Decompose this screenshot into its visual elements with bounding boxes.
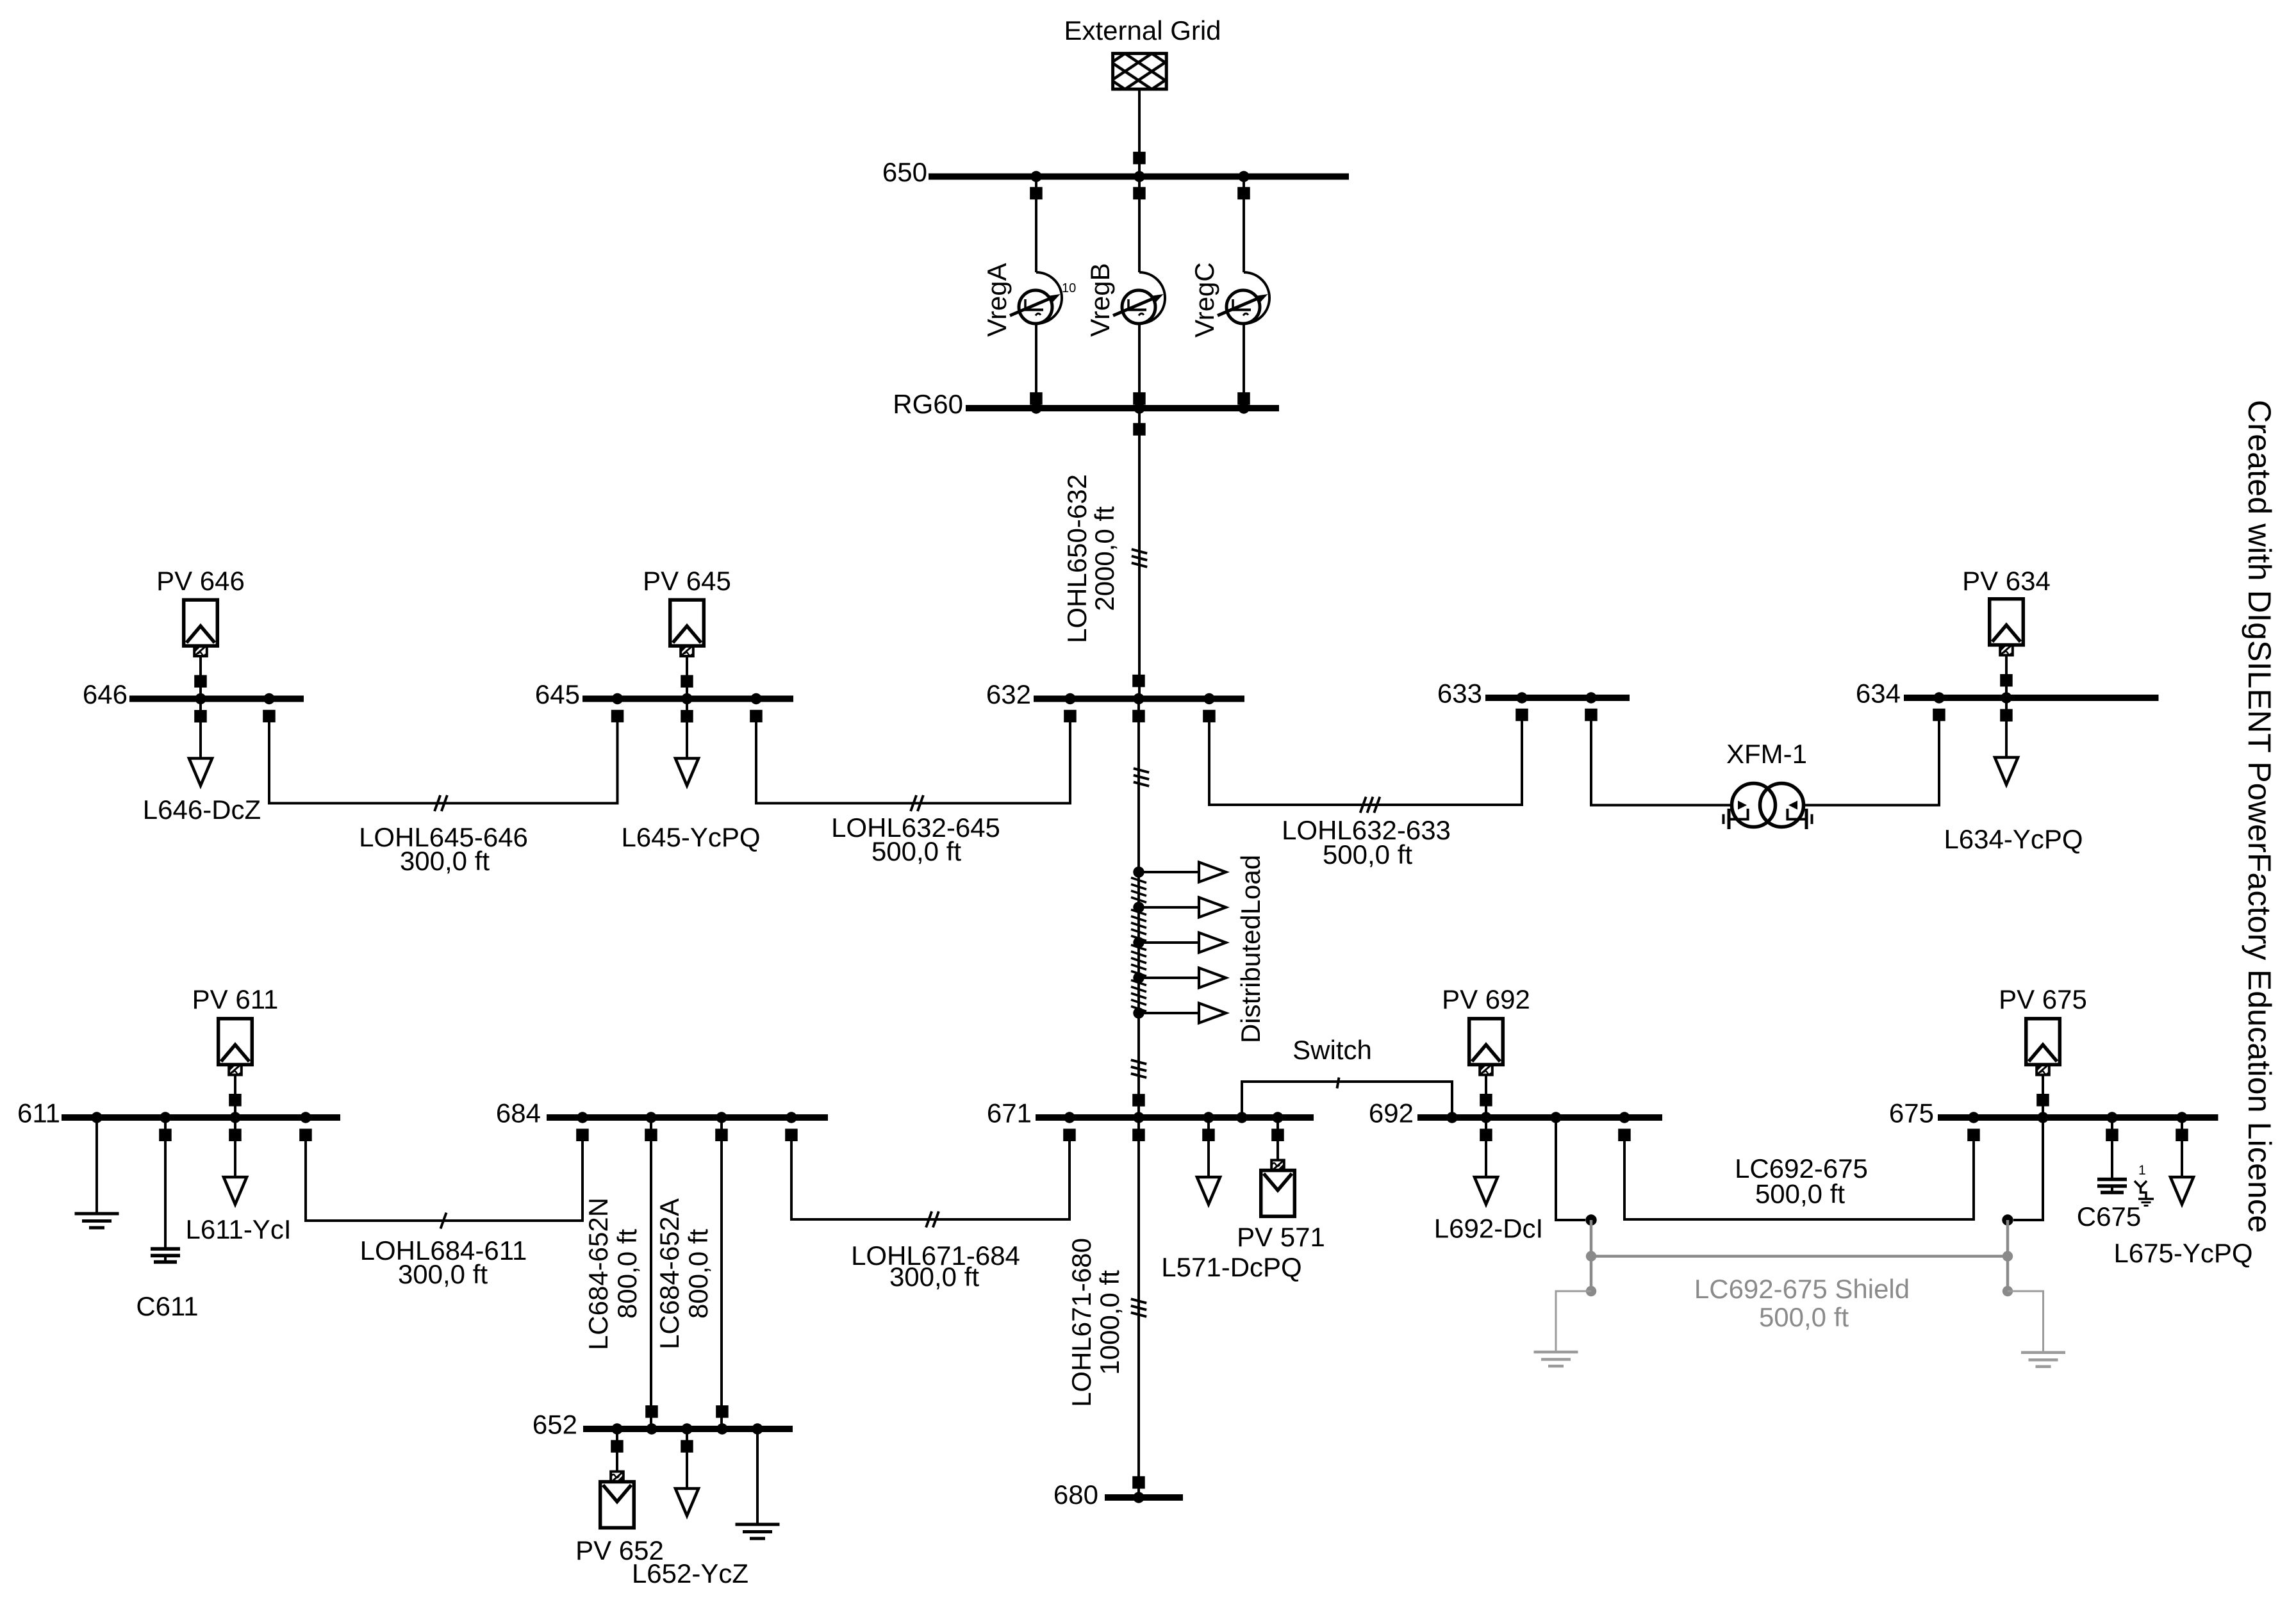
svg-text:634: 634 <box>1856 679 1901 709</box>
svg-text:L611-YcI: L611-YcI <box>186 1214 292 1244</box>
ground at bus 652 <box>736 1429 780 1538</box>
bus 692 <box>1417 1114 1662 1121</box>
wire external grid to bus 650 <box>1138 89 1141 176</box>
svg-text:L652-YcZ: L652-YcZ <box>632 1558 748 1588</box>
PV generator PV 675 <box>2026 1019 2060 1118</box>
svg-text:2000,0 ft: 2000,0 ft <box>1089 506 1119 611</box>
svg-text:L692-DcI: L692-DcI <box>1434 1214 1543 1244</box>
load L675-YcPQ <box>2170 1118 2193 1205</box>
PV generator PV 646 <box>184 600 218 698</box>
node bus650-VregC <box>1238 171 1249 182</box>
line LOHL671-684 <box>785 1129 1076 1228</box>
svg-text:652: 652 <box>533 1410 577 1440</box>
svg-text:675: 675 <box>1889 1098 1934 1128</box>
switch square external grid feeder <box>1133 152 1146 164</box>
bus 646 <box>129 696 304 702</box>
line LOHL632-633 <box>1203 709 1528 813</box>
svg-text:VregA: VregA <box>982 263 1012 336</box>
switch wire bus671-bus692 <box>1242 1078 1452 1118</box>
load L611-YcI <box>224 1118 247 1205</box>
shield ground right <box>2008 1291 2065 1367</box>
svg-text:500,0 ft: 500,0 ft <box>871 836 961 866</box>
PV generator PV 692 <box>1469 1019 1503 1118</box>
svg-text:LC692-675 Shield: LC692-675 Shield <box>1694 1274 1910 1304</box>
PV generator PV 652 <box>600 1429 634 1528</box>
bus 671 <box>1036 1114 1314 1121</box>
shunt capacitor C675 <box>2097 1118 2127 1192</box>
bus 633 <box>1485 695 1630 701</box>
svg-text:PV 692: PV 692 <box>1442 984 1530 1014</box>
svg-text:300,0 ft: 300,0 ft <box>398 1259 488 1289</box>
svg-text:645: 645 <box>535 679 580 709</box>
svg-text:C611: C611 <box>136 1291 198 1321</box>
svg-text:External Grid: External Grid <box>1064 15 1221 45</box>
svg-text:Created with DIgSILENT PowerFa: Created with DIgSILENT PowerFactory Educ… <box>2242 400 2277 1233</box>
PV generator PV 634 <box>1990 599 2024 698</box>
bus RG60 <box>966 405 1279 411</box>
node LC692-675 terminal i <box>1585 1214 1596 1225</box>
svg-text:PV 646: PV 646 <box>156 566 245 596</box>
cable LC692-675 <box>1618 1129 1980 1220</box>
bus 675 <box>1938 1114 2218 1121</box>
load L652-YcZ <box>675 1429 698 1516</box>
svg-text:LOHL650-632: LOHL650-632 <box>1062 474 1092 643</box>
wire <box>1138 177 1141 273</box>
svg-text:RG60: RG60 <box>893 389 963 419</box>
switch square feeder at bus 632 top <box>1132 675 1145 688</box>
svg-text:LC684-652N: LC684-652N <box>583 1198 613 1350</box>
load L634-YcPQ <box>1995 698 2018 785</box>
svg-text:692: 692 <box>1369 1098 1414 1128</box>
svg-text:L645-YcPQ: L645-YcPQ <box>621 822 760 852</box>
bus 632 <box>1034 696 1244 702</box>
svg-text:500,0 ft: 500,0 ft <box>1759 1302 1849 1332</box>
bus 684 <box>547 1114 828 1121</box>
PV generator PV 645 <box>670 600 704 698</box>
svg-text:684: 684 <box>496 1098 541 1128</box>
svg-text:PV 634: PV 634 <box>1962 566 2051 596</box>
svg-text:633: 633 <box>1437 679 1482 709</box>
cable shield LC692-675 Shield <box>1586 1220 2013 1296</box>
wire <box>1138 324 1141 408</box>
svg-text:300,0 ft: 300,0 ft <box>889 1262 979 1292</box>
neutral earthing symbol 1 at C675 <box>2135 1163 2154 1206</box>
line LOHL684-611 <box>299 1129 589 1229</box>
voltage regulator VregC <box>1218 177 1269 409</box>
svg-text:VregB: VregB <box>1085 263 1115 336</box>
svg-text:680: 680 <box>1053 1480 1098 1510</box>
external grid symbol <box>1113 53 1167 89</box>
svg-text:800,0 ft: 800,0 ft <box>612 1229 642 1319</box>
svg-text:500,0 ft: 500,0 ft <box>1755 1179 1845 1209</box>
svg-text:1000,0 ft: 1000,0 ft <box>1094 1270 1125 1375</box>
shunt capacitor C611 <box>151 1118 180 1262</box>
svg-text:C675: C675 <box>2077 1201 2141 1232</box>
line LOHL632-645 <box>750 710 1077 811</box>
DistributedLoad arrows <box>1131 862 1226 1023</box>
load L645-YcPQ <box>675 699 698 786</box>
svg-text:L675-YcPQ: L675-YcPQ <box>2113 1238 2252 1268</box>
svg-text:646: 646 <box>83 679 128 709</box>
svg-text:300,0 ft: 300,0 ft <box>400 846 490 876</box>
svg-text:XFM-1: XFM-1 <box>1726 739 1807 769</box>
load L571 load arrow <box>1197 1118 1220 1205</box>
PV generator PV 611 <box>219 1019 252 1118</box>
wire <box>1035 177 1037 273</box>
bus 645 <box>582 696 793 702</box>
voltage regulator VregB <box>1113 177 1165 409</box>
wire <box>1243 177 1245 273</box>
ground at bus 611 <box>75 1118 119 1228</box>
line LOHL650-632 <box>1132 408 1147 699</box>
svg-text:L634-YcPQ: L634-YcPQ <box>1944 824 2083 854</box>
wire XFM-1 to bus 634 <box>1804 709 1945 805</box>
svg-text:PV 611: PV 611 <box>192 984 279 1014</box>
svg-text:800,0 ft: 800,0 ft <box>683 1229 713 1319</box>
load L646-DcZ <box>189 699 212 786</box>
load L692-DcI <box>1474 1118 1498 1205</box>
cable end stub bus692 <box>1556 1118 1585 1220</box>
svg-text:LOHL671-680: LOHL671-680 <box>1066 1238 1096 1407</box>
svg-text:PV 675: PV 675 <box>1999 984 2087 1014</box>
svg-text:LC684-652A: LC684-652A <box>654 1198 684 1349</box>
node bus650-center <box>1134 171 1144 182</box>
shield ground left <box>1534 1291 1592 1366</box>
cable end stub bus675 <box>2013 1118 2043 1220</box>
bus 652 <box>583 1426 793 1432</box>
svg-text:632: 632 <box>986 679 1031 709</box>
svg-text:PV 571: PV 571 <box>1237 1222 1325 1252</box>
cable LC684-652N <box>645 1118 657 1429</box>
wire <box>1035 324 1037 408</box>
wire bus633 to XFM-1 <box>1585 709 1731 805</box>
svg-text:650: 650 <box>882 157 927 187</box>
bus 680 <box>1105 1494 1183 1501</box>
node LC692-675 terminal j <box>2002 1214 2013 1225</box>
svg-text:500,0 ft: 500,0 ft <box>1323 839 1412 870</box>
svg-text:1: 1 <box>2138 1163 2146 1178</box>
PV generator PV 571 <box>1261 1118 1295 1216</box>
svg-text:611: 611 <box>17 1098 60 1128</box>
bus 634 <box>1904 695 2159 701</box>
bus 650 <box>929 174 1349 180</box>
line LOHL645-646 <box>263 710 624 811</box>
feeder line 632-671 with DistributedLoad <box>1131 699 1149 1118</box>
svg-text:671: 671 <box>987 1098 1032 1128</box>
voltage regulator VregA <box>1010 177 1062 409</box>
svg-text:L571-DcPQ: L571-DcPQ <box>1161 1252 1301 1282</box>
svg-text:DistributedLoad: DistributedLoad <box>1235 855 1266 1043</box>
svg-text:VregC: VregC <box>1189 262 1219 338</box>
svg-text:L646-DcZ: L646-DcZ <box>143 795 261 825</box>
line LOHL671-680 <box>1131 1118 1146 1497</box>
svg-text:PV 645: PV 645 <box>643 566 731 596</box>
transformer XFM-1 <box>1724 784 1812 830</box>
svg-text:Switch: Switch <box>1293 1035 1372 1065</box>
cable LC684-652A <box>715 1118 729 1429</box>
svg-text:10: 10 <box>1062 281 1076 295</box>
bus 611 <box>62 1114 340 1121</box>
wire <box>1243 324 1245 408</box>
node bus650-VregA <box>1030 171 1041 182</box>
